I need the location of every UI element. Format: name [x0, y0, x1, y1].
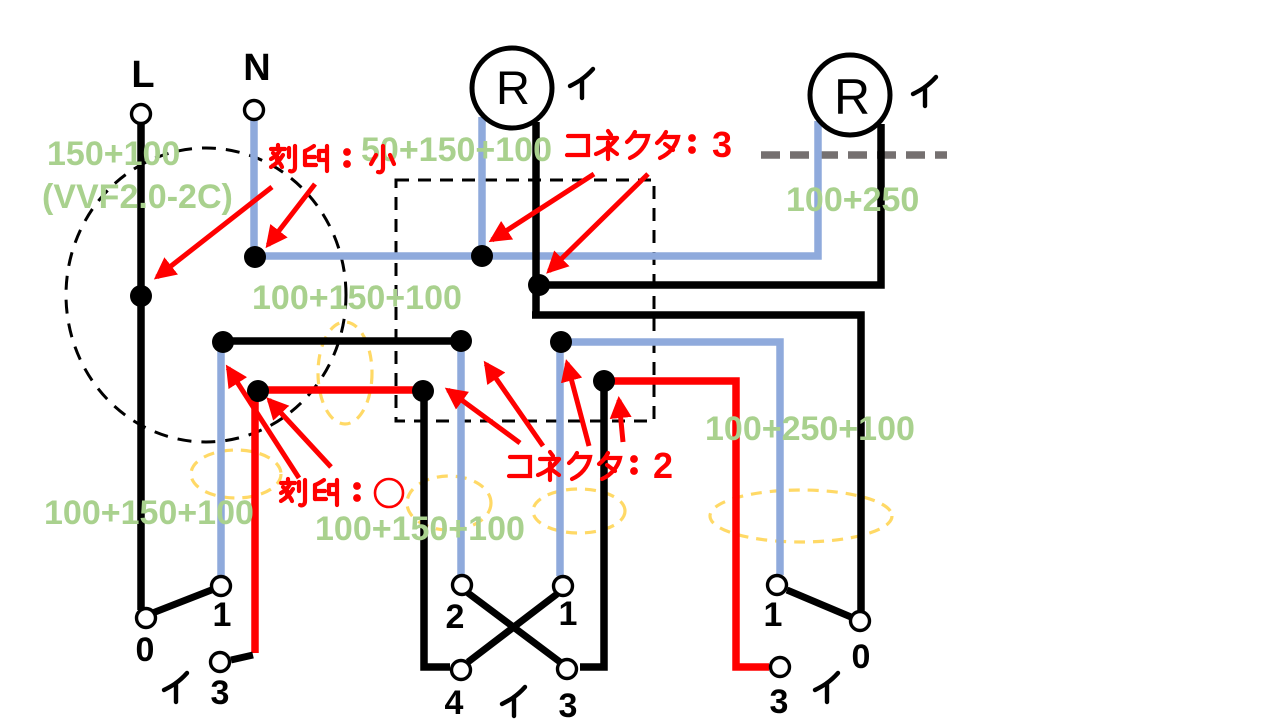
junction dot traveler mid: [450, 330, 472, 352]
wire blue mid drop x=560: [556, 342, 564, 576]
wire red drop x=255 to left switch 3: [251, 390, 259, 653]
svg-text:R: R: [834, 69, 870, 125]
note コネクタ:3 (red): [567, 131, 696, 159]
wire blue traveler mid drop x=461: [457, 341, 465, 575]
terminal L circle: [132, 105, 151, 124]
wire cross middle 1-4: [468, 594, 557, 662]
arrow 刻印小 to N junction: [268, 184, 315, 245]
arrow 刻印小 to L wire dot: [157, 187, 272, 277]
arrow コネクタ3 to blue junction: [492, 174, 594, 240]
arrow コネクタ2 a: [448, 390, 520, 443]
svg-text:0: 0: [136, 631, 155, 669]
svg-text:100+250: 100+250: [786, 181, 919, 219]
arrow コネクタ2 b: [486, 364, 543, 446]
arrow コネクタ3 to black junction: [549, 174, 648, 271]
svg-text:0: 0: [852, 638, 871, 676]
svg-text:150+100: 150+100: [47, 135, 180, 173]
terminal middle switch 3: [558, 660, 577, 679]
svg-text:2: 2: [653, 445, 673, 486]
yellow ellipse E4 (middle-right cable mark): [533, 489, 625, 533]
wire black drop x=604 to middle switch 3: [580, 378, 604, 667]
wire lamp1 blue drop: [478, 117, 486, 256]
svg-text:L: L: [131, 54, 154, 96]
terminal middle switch 2: [453, 576, 472, 595]
junction dot lamp1 blue: [471, 245, 493, 267]
note 刻印:○ mark circle: [375, 479, 403, 507]
yellow ellipse E2 (left cable mark): [191, 450, 281, 498]
yellow ellipse E1 (cable mark, vertical): [318, 322, 372, 424]
yellow ellipse E5 (right cable mark): [710, 490, 892, 542]
junction dot traveler left: [212, 331, 234, 353]
svg-text:100+250+100: 100+250+100: [705, 410, 915, 448]
wire black traveler y=341: [223, 337, 461, 345]
label イ lamp1: [570, 69, 593, 98]
wire black lamp link y=285 with riser to lamp2: [537, 124, 881, 285]
wire blue traveler y=341 to right switch 1: [561, 342, 780, 575]
arrow コネクタ2 c: [567, 363, 589, 446]
label イ right switch: [815, 673, 838, 702]
svg-text:1: 1: [559, 595, 578, 633]
junction dot red left: [247, 380, 269, 402]
terminal right switch 0: [851, 612, 870, 631]
junction dot on L wire: [130, 285, 152, 307]
svg-text:100+150+100: 100+150+100: [252, 279, 462, 317]
svg-text:50+150+100: 50+150+100: [361, 131, 552, 169]
wire blade right switch 1-0: [787, 590, 851, 617]
note 刻印:○ (red): [281, 479, 361, 505]
junction dot blue mid: [550, 331, 572, 353]
junction dot lamp1 black: [528, 274, 550, 296]
svg-text:4: 4: [445, 684, 464, 720]
gray dashed boundary line: [761, 151, 947, 159]
wire black drop x=424 to middle switch 4: [424, 388, 450, 667]
lamp R1 circle: [472, 48, 552, 128]
svg-text:3: 3: [770, 683, 789, 720]
wire black stub to left switch 3: [231, 655, 253, 660]
svg-text:1: 1: [213, 596, 232, 634]
junction dot N blue: [244, 246, 266, 268]
wire N blue vertical: [250, 119, 258, 258]
svg-text:N: N: [243, 47, 270, 89]
wire red traveler y=390: [258, 386, 424, 394]
label イ left switch: [164, 673, 187, 702]
wire red y=381 to right switch 3: [602, 381, 769, 667]
dashed box region (connector group): [396, 180, 654, 421]
terminal right switch 1: [768, 576, 787, 595]
wire blade left switch 0-1: [150, 589, 214, 614]
arrow 刻印○ upper: [228, 368, 299, 478]
svg-text:3: 3: [712, 124, 732, 165]
svg-text:3: 3: [559, 687, 578, 720]
label イ lamp2: [913, 77, 936, 106]
wire cross middle 2-3: [468, 593, 560, 662]
terminal right switch 3: [771, 658, 790, 677]
terminal N circle: [245, 101, 264, 120]
wire blue bus y=256 with riser to lamp2: [255, 121, 818, 256]
wire lamp1 black drop: [532, 122, 540, 318]
terminal left switch 3: [211, 653, 230, 672]
svg-text:2: 2: [446, 598, 465, 636]
note コネクタ:2 (red): [509, 452, 638, 480]
arrow 刻印○ lower: [269, 400, 331, 467]
svg-text:(VVF2.0-2C): (VVF2.0-2C): [42, 178, 233, 216]
wire black y=315 to right switch 0: [532, 315, 861, 611]
terminal middle switch 1: [554, 577, 573, 596]
terminal middle switch 4: [452, 661, 471, 680]
junction dot red-black mid: [412, 380, 434, 402]
svg-text:1: 1: [764, 596, 783, 634]
yellow ellipse E3 (middle-left cable mark): [407, 476, 491, 530]
terminal left switch 1: [212, 577, 231, 596]
svg-text:100+150+100: 100+150+100: [315, 510, 525, 548]
wire L black vertical: [137, 122, 145, 610]
label イ middle switch: [502, 687, 525, 716]
lamp R2 circle: [810, 55, 890, 135]
junction dot red-black right: [593, 370, 615, 392]
terminal left switch 0: [137, 609, 156, 628]
dashed circle region (VVF2.0-2C cable group): [66, 148, 346, 442]
note 刻印:小 (red): [271, 145, 394, 172]
svg-text:R: R: [496, 61, 530, 114]
wire blue traveler left drop x=221: [217, 342, 225, 576]
svg-text:3: 3: [211, 674, 230, 712]
svg-text:100+150+100: 100+150+100: [44, 494, 254, 532]
arrow コネクタ2 d: [619, 400, 623, 442]
